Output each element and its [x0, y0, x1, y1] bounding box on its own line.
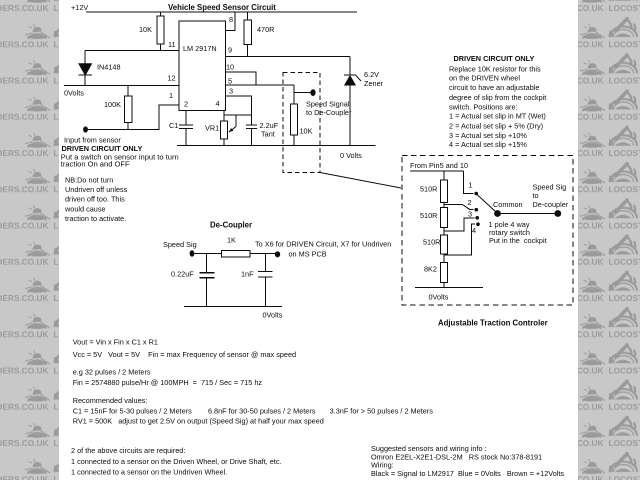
- svg-text:12: 12: [168, 74, 176, 83]
- node terminal 1: [474, 192, 478, 196]
- svg-text:LM 2917N: LM 2917N: [183, 44, 217, 53]
- resistor 470R: [244, 20, 252, 45]
- wire 0V rail controller: [415, 287, 483, 289]
- svg-text:0 Volts: 0 Volts: [340, 151, 362, 160]
- svg-text:Adjustable Traction Controler: Adjustable Traction Controler: [438, 319, 548, 328]
- wire VR1 node: [224, 114, 252, 116]
- capacitor 1nF: [258, 272, 273, 278]
- wire 100K top lead: [127, 86, 129, 97]
- svg-text:on the DRIVEN wheel: on the DRIVEN wheel: [449, 73, 520, 82]
- wire input from sensor: [86, 105, 180, 130]
- svg-text:4 = Actual set slip +15%: 4 = Actual set slip +15%: [449, 140, 527, 149]
- resistor 1K: [222, 251, 250, 258]
- resistor 100K: [125, 96, 133, 123]
- wire 0V rail left: [64, 85, 179, 87]
- wire VR1 top lead: [223, 115, 225, 121]
- node common: [494, 210, 501, 217]
- node terminal 2: [475, 208, 479, 212]
- wire 8K2 bottom lead: [443, 283, 445, 288]
- resistor 510R second: [441, 208, 448, 228]
- wire 2.2uF bottom lead: [251, 129, 253, 146]
- svg-text:Common: Common: [493, 200, 523, 209]
- wire pin 2 to C1: [185, 111, 187, 126]
- svg-text:IN4148: IN4148: [97, 63, 121, 72]
- svg-text:1K: 1K: [227, 236, 236, 245]
- wire pin 5 to dashed box: [226, 84, 295, 86]
- svg-text:would cause: would cause: [64, 204, 106, 213]
- node speed sig out: [554, 210, 561, 217]
- svg-text:1: 1: [169, 91, 173, 100]
- svg-text:De-Coupler: De-Coupler: [210, 221, 252, 230]
- svg-text:to De-Coupler: to De-Coupler: [306, 108, 352, 117]
- zener diode 6.2V: [344, 75, 361, 85]
- watermark right column: [578, 0, 640, 480]
- svg-text:9: 9: [228, 46, 232, 55]
- wire pin 11: [85, 50, 179, 52]
- svg-text:510R: 510R: [420, 185, 437, 194]
- wire pin 4 stub: [223, 111, 225, 116]
- resistor 510R first: [441, 180, 448, 203]
- wire C1 bottom lead: [185, 129, 187, 146]
- svg-text:10: 10: [226, 63, 234, 72]
- svg-text:3: 3: [229, 87, 233, 96]
- svg-text:100K: 100K: [104, 100, 121, 109]
- wire ladder top: [443, 171, 445, 180]
- node terminal 3: [475, 216, 479, 220]
- wire zener top lead: [349, 57, 351, 75]
- svg-text:6.2V: 6.2V: [364, 70, 379, 79]
- wire decoupler input: [192, 253, 222, 255]
- svg-text:Replace 10K resistor for this: Replace 10K resistor for this: [449, 65, 541, 74]
- wire 0.22uF top lead: [206, 254, 208, 273]
- svg-text:3: 3: [468, 210, 472, 219]
- svg-text:1 connected to a sensor on the: 1 connected to a sensor on the Driven Wh…: [71, 457, 282, 466]
- wire pin 10: [226, 72, 257, 85]
- wire 10K top lead: [160, 12, 162, 16]
- svg-text:2 = Actual set slip + 5% (Dry): 2 = Actual set slip + 5% (Dry): [449, 121, 543, 130]
- wire 100K bottom lead: [127, 123, 129, 130]
- resistor 8K2: [441, 263, 448, 283]
- wire pin 3: [226, 96, 252, 125]
- wire VR1 bottom lead: [223, 139, 225, 146]
- svg-text:circuit to have an adjustable: circuit to have an adjustable: [449, 83, 539, 92]
- node terminal 4: [476, 222, 480, 226]
- wire terminal 4: [444, 224, 475, 255]
- svg-text:Vcc = 5V Vout = 5V Fin =: Vcc = 5V Vout = 5V Fin = max Frequency o…: [73, 350, 296, 359]
- resistor 10K right: [291, 104, 298, 135]
- svg-text:traction On and OFF: traction On and OFF: [61, 160, 130, 169]
- dashed box speed signal: [283, 73, 320, 173]
- wire +12V top rail: [86, 11, 357, 13]
- wire diode anode: [84, 51, 86, 65]
- svg-text:Vout = Vin x Fin x C1 x R1: Vout = Vin x Fin x C1 x R1: [73, 338, 158, 347]
- wire controller input: [410, 170, 463, 172]
- svg-text:NB:Do not turn: NB:Do not turn: [65, 175, 113, 184]
- wire 1nF bottom lead: [264, 277, 266, 307]
- svg-text:8: 8: [229, 15, 233, 24]
- svg-text:10K: 10K: [300, 127, 313, 136]
- svg-text:10K: 10K: [139, 25, 152, 34]
- capacitor 0.22uF: [200, 273, 215, 278]
- svg-text:0Volts: 0Volts: [64, 89, 84, 98]
- svg-text:1nF: 1nF: [241, 270, 254, 279]
- wire terminal 2: [444, 205, 474, 210]
- node decoupler input dot: [190, 250, 195, 256]
- svg-text:DRIVEN CIRCUIT ONLY: DRIVEN CIRCUIT ONLY: [454, 54, 535, 63]
- resistor 10K top left: [157, 16, 164, 44]
- svg-text:De-coupler: De-coupler: [533, 200, 569, 209]
- svg-text:Undriven off unless: Undriven off unless: [65, 185, 128, 194]
- wire terminal 3: [444, 218, 475, 231]
- capacitor 2.2uF tant: [246, 125, 257, 129]
- svg-text:traction to activate.: traction to activate.: [65, 214, 126, 223]
- wire pin 8: [226, 12, 235, 31]
- wire 10K right bottom lead: [293, 135, 295, 146]
- svg-text:470R: 470R: [257, 25, 274, 34]
- svg-text:driven off too. This: driven off too. This: [65, 195, 125, 204]
- op-amp U1 LM2917N body: [179, 21, 226, 111]
- svg-text:510R: 510R: [423, 238, 440, 247]
- wire speed signal stub: [294, 92, 311, 94]
- svg-text:+12V: +12V: [71, 3, 88, 12]
- svg-text:0.22uF: 0.22uF: [171, 270, 194, 279]
- wire R junction 1-2: [443, 203, 445, 208]
- wire 10K bottom lead: [160, 44, 162, 51]
- svg-text:on MS PCB: on MS PCB: [289, 250, 327, 259]
- wire common to speed sig: [498, 213, 558, 215]
- potentiometer VR1: [221, 115, 237, 139]
- wire diode cathode: [84, 75, 86, 86]
- svg-text:C1: C1: [169, 121, 178, 130]
- wire 0.22uF bottom lead: [206, 278, 208, 307]
- wire terminal 1: [463, 171, 473, 194]
- wire 1nF top lead: [264, 254, 266, 272]
- capacitor C1: [179, 125, 193, 129]
- wire 0V rail decoupler: [184, 306, 282, 308]
- svg-text:2: 2: [184, 100, 188, 109]
- svg-text:Speed Sig: Speed Sig: [163, 240, 197, 249]
- svg-text:11: 11: [168, 40, 176, 49]
- svg-text:2: 2: [468, 198, 472, 207]
- watermark left column: [0, 0, 59, 480]
- svg-text:8K2: 8K2: [424, 265, 437, 274]
- wire switch arm: [477, 195, 496, 213]
- svg-text:0Volts: 0Volts: [263, 311, 283, 320]
- svg-text:C1 = 15nF for 5-30 pulses / 2: C1 = 15nF for 5-30 pulses / 2 Meters 6.8…: [73, 407, 434, 416]
- svg-text:to: to: [533, 191, 539, 200]
- svg-text:switch. Positions are:: switch. Positions are:: [449, 103, 518, 112]
- wire pointer to controller: [320, 173, 401, 189]
- svg-text:3 = Actual set slip +10%: 3 = Actual set slip +10%: [449, 131, 527, 140]
- svg-text:510R: 510R: [420, 211, 437, 220]
- svg-text:VR1: VR1: [205, 124, 219, 133]
- wire 0V rail middle: [177, 145, 376, 147]
- svg-text:Recommended values:: Recommended values:: [73, 396, 148, 405]
- svg-text:degree of slip from the cockpi: degree of slip from the cockpit: [449, 93, 546, 102]
- svg-text:0Volts: 0Volts: [429, 293, 449, 302]
- svg-text:Fin = 2574880 pulse/Hr @ 100MP: Fin = 2574880 pulse/Hr @ 100MPH = 715 / …: [73, 378, 263, 387]
- svg-text:From Pin5 and 10: From Pin5 and 10: [410, 161, 468, 170]
- svg-text:4: 4: [216, 99, 220, 108]
- svg-text:4: 4: [472, 226, 476, 235]
- resistor 510R third: [441, 235, 448, 254]
- svg-text:1: 1: [469, 181, 473, 190]
- svg-text:To X6 for DRIVEN Circuit, X7 f: To X6 for DRIVEN Circuit, X7 for Undrive…: [255, 240, 391, 249]
- svg-text:Put in the cockpit: Put in the cockpit: [489, 236, 547, 245]
- wire speed signal drop: [293, 85, 295, 104]
- svg-text:Zener: Zener: [364, 79, 384, 88]
- node speed signal dot: [310, 89, 315, 96]
- node decoupler output dot: [275, 251, 280, 257]
- diode IN4148: [79, 64, 93, 75]
- wire 470R bottom lead: [247, 45, 249, 57]
- wire R junction 2-3: [443, 228, 445, 236]
- wire zener bottom lead: [349, 85, 351, 146]
- svg-text:Omron E2EL-X2E1-DSL-2M RS st: Omron E2EL-X2E1-DSL-2M RS stock No:378-8…: [371, 453, 542, 462]
- node input sensor dot: [83, 126, 88, 132]
- wire decoupler output: [250, 253, 278, 255]
- svg-text:Vehicle Speed Sensor Circuit: Vehicle Speed Sensor Circuit: [168, 3, 276, 12]
- dashed box traction controller: [402, 155, 573, 305]
- wire R junction 3-4: [443, 254, 445, 262]
- svg-text:5: 5: [228, 77, 232, 86]
- svg-text:Black = Signal to LM2917 Blue: Black = Signal to LM2917 Blue = 0Volts B…: [371, 469, 564, 478]
- svg-text:RV1 = 500K adjust to get 2.5: RV1 = 500K adjust to get 2.5V on output …: [73, 417, 324, 426]
- svg-text:1 connected to a sensor on the: 1 connected to a sensor on the Undriven …: [71, 468, 227, 477]
- svg-text:2 of the above circuits are re: 2 of the above circuits are required:: [71, 446, 185, 455]
- wire pin 9 to zener: [226, 56, 351, 58]
- wire 470R top lead: [247, 12, 249, 20]
- svg-text:1 = Actual set slip in MT (Wet: 1 = Actual set slip in MT (Wet): [449, 112, 546, 121]
- svg-text:e.g 32 pulses / 2 Meters: e.g 32 pulses / 2 Meters: [73, 368, 151, 377]
- svg-text:Tant: Tant: [261, 130, 275, 139]
